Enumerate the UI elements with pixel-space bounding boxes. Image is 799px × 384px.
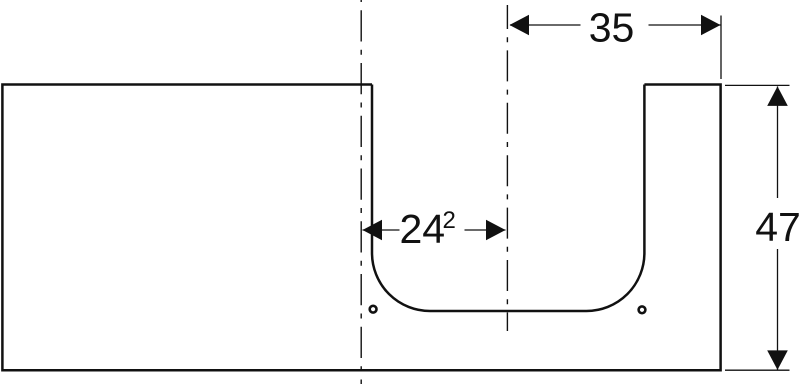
extension line bottom (for 47) [725, 369, 790, 371]
hole left [370, 306, 377, 313]
centerline middle [506, 5, 508, 331]
arrow 35 left [510, 15, 530, 36]
svg-text:47: 47 [755, 204, 799, 250]
dimension line 35 [510, 24, 581, 26]
extension line top (for 47) [725, 84, 790, 86]
panel outline [2, 85, 720, 371]
hole right [639, 306, 646, 313]
cutout [372, 85, 644, 312]
svg-text:24: 24 [400, 206, 446, 252]
arrow 24 left [363, 220, 383, 241]
extension line right edge (for 35) [720, 16, 722, 80]
arrow 47 bottom [767, 350, 788, 370]
centerline left [360, 0, 362, 384]
arrow 24 right [486, 220, 506, 241]
svg-text:2: 2 [443, 207, 456, 234]
arrow 47 top [767, 86, 788, 106]
svg-text:35: 35 [589, 5, 635, 51]
arrow 35 right [701, 15, 721, 36]
dimension line 24 [363, 229, 400, 231]
dimension line 47 [777, 86, 779, 198]
